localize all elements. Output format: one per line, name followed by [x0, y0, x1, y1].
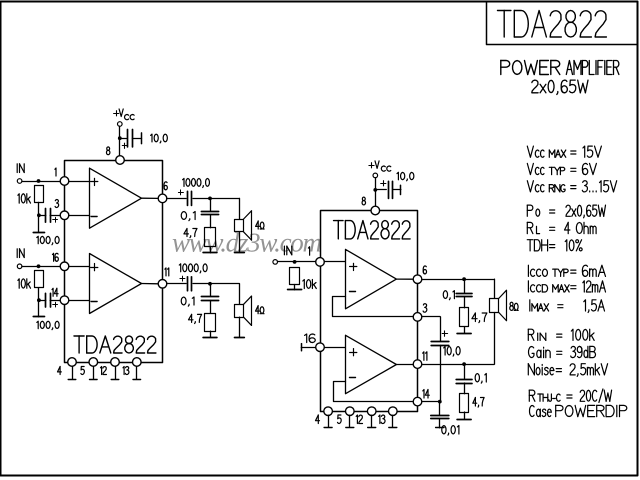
svg-text:www.dz3w.com: www.dz3w.com — [172, 228, 322, 258]
